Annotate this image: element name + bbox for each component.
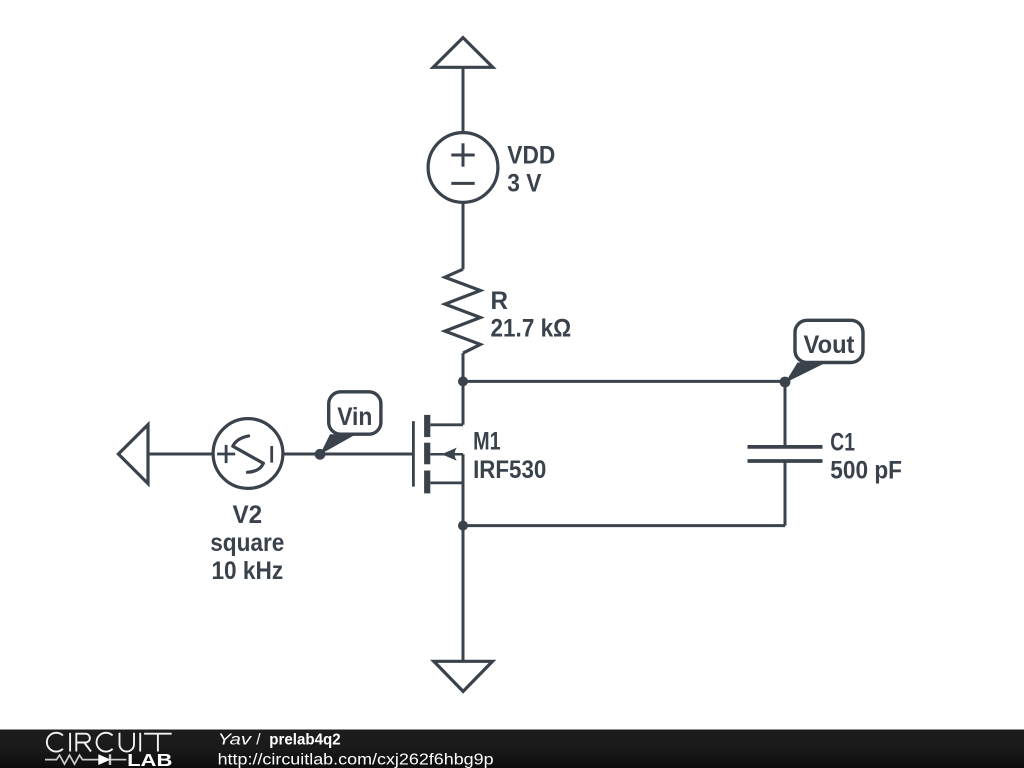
svg-text:500 pF: 500 pF: [830, 456, 902, 484]
svg-text:3 V: 3 V: [507, 170, 541, 198]
svg-text:Yav: Yav: [218, 731, 253, 748]
svg-text:IRF530: IRF530: [473, 456, 546, 484]
svg-text:prelab4q2: prelab4q2: [269, 731, 340, 748]
svg-text:C1: C1: [830, 428, 855, 456]
svg-text:21.7 kΩ: 21.7 kΩ: [491, 315, 572, 343]
svg-text:VDD: VDD: [507, 142, 555, 170]
svg-text:Vin: Vin: [337, 403, 372, 431]
svg-text:square: square: [210, 529, 284, 557]
svg-text:R: R: [491, 287, 509, 315]
svg-text:LAB: LAB: [127, 750, 172, 768]
svg-text:http://circuitlab.com/cxj262f6: http://circuitlab.com/cxj262f6hbg9p: [218, 751, 494, 768]
svg-text:Vout: Vout: [804, 331, 856, 359]
svg-text:10 kHz: 10 kHz: [211, 557, 283, 585]
svg-text:/: /: [256, 731, 261, 748]
svg-text:V2: V2: [232, 501, 262, 529]
svg-text:M1: M1: [473, 428, 501, 456]
